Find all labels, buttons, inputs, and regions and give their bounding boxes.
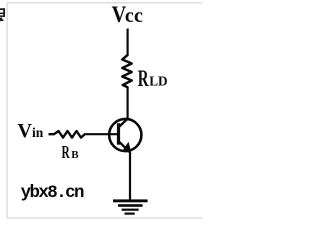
svg-text:ybx8.cn: ybx8.cn	[21, 183, 84, 203]
svg-text:R: R	[138, 66, 149, 92]
svg-text:LD: LD	[149, 75, 167, 90]
svg-text:cc: cc	[125, 5, 143, 27]
svg-text:R: R	[62, 142, 70, 162]
ground	[113, 199, 148, 214]
resistor RLD	[122, 55, 131, 87]
transistor Q1	[109, 119, 141, 153]
partial text glyph at left edge	[0, 8, 5, 21]
svg-text:Vin: Vin	[18, 120, 44, 142]
wire Vcc to RLD	[126, 29, 128, 57]
wire emitter to ground	[129, 152, 131, 202]
wire RLD to collector	[126, 87, 128, 121]
wire RB to base	[84, 133, 118, 135]
svg-text:B: B	[71, 149, 79, 161]
resistor RB	[49, 131, 85, 138]
